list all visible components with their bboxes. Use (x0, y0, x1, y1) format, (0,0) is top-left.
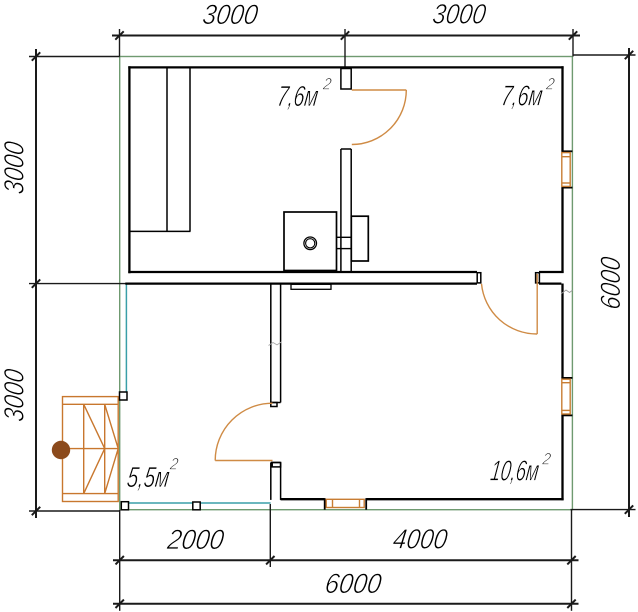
dimension bottom row 1: ticks (116, 556, 576, 564)
window W1 right wall upper (orange) (562, 153, 570, 187)
break mark interior wall (269, 342, 282, 346)
door D3 leaf (orange) (536, 274, 538, 334)
stove shield in right room (351, 216, 368, 261)
corner post P3 (193, 502, 200, 510)
svg-text:6000: 6000 (595, 255, 626, 312)
dimension right: ticks (625, 51, 633, 514)
cyan partition left wall of room 5,5 (125, 285, 127, 393)
corner post P1 (120, 392, 128, 400)
svg-text:5,5м: 5,5м (125, 462, 171, 494)
outer wall right (segments between windows) (561, 66, 563, 500)
door D1 swing arc (352, 90, 407, 145)
svg-text:6000: 6000 (323, 568, 384, 599)
dimension bottom row 1: line (113, 559, 579, 561)
stove body (284, 212, 337, 271)
dimension left: line (35, 49, 37, 518)
door D2 leaf (orange) (215, 460, 272, 462)
window W3 bottom wall (orange) (326, 499, 364, 507)
door D3 swing arc (482, 284, 538, 334)
outer wall left (128, 66, 130, 273)
window caps right wall (561, 151, 572, 415)
dimension right: extension lines (571, 55, 636, 510)
svg-text:3000: 3000 (0, 139, 29, 196)
porch post marker (brown circle) (52, 441, 70, 459)
middle wall upper line (128, 271, 563, 273)
door D1 leaf (orange) (352, 89, 407, 91)
interior wall between top rooms (upper stub) (341, 69, 351, 90)
dimension bottom: extension lines (120, 504, 572, 611)
interior wall between bottom rooms (upper run) (271, 284, 281, 407)
svg-text:10,6м: 10,6м (489, 456, 541, 488)
cyan partition bottom wall of room 5,5 (124, 502, 271, 504)
wardrobe top-left room (129, 69, 190, 232)
stove connection through wall (337, 237, 352, 248)
interior wall between top rooms (lower run) (341, 149, 351, 271)
svg-text:3000: 3000 (201, 0, 261, 30)
dimension left: extension lines (29, 57, 127, 512)
dimension bottom row 2: ticks (116, 600, 576, 608)
porch outline (orange) (53, 397, 118, 502)
svg-text:3000: 3000 (431, 0, 489, 29)
door D3 jambs in middle wall (477, 273, 539, 283)
stove flue circle (304, 237, 317, 250)
svg-text:3000: 3000 (0, 367, 29, 424)
dimension top: extension lines (120, 29, 574, 68)
dimension top: ticks (115, 31, 577, 39)
svg-text:7,6м: 7,6м (499, 81, 544, 113)
middle wall lower line (125, 282, 561, 284)
break mark right wall (562, 290, 573, 294)
outer wall top (128, 66, 563, 68)
bottom wall of room 10,6 (281, 498, 564, 500)
dimension bottom row 2: line (113, 603, 579, 605)
niche on middle wall (291, 284, 331, 289)
dimension top: line (112, 35, 580, 37)
svg-text:7,6м: 7,6м (275, 81, 320, 113)
svg-text:2000: 2000 (165, 524, 227, 555)
dimension left: ticks (32, 52, 40, 515)
interior wall between bottom rooms (lower run) (271, 463, 281, 500)
svg-text:4000: 4000 (391, 524, 450, 555)
corner post P2 (121, 502, 128, 510)
dimension right: line (628, 48, 630, 517)
window W3 caps bottom wall (325, 498, 367, 510)
door D2 swing arc (215, 403, 272, 460)
green site outline (120, 57, 573, 510)
window W2 right wall lower (orange) (562, 379, 570, 414)
